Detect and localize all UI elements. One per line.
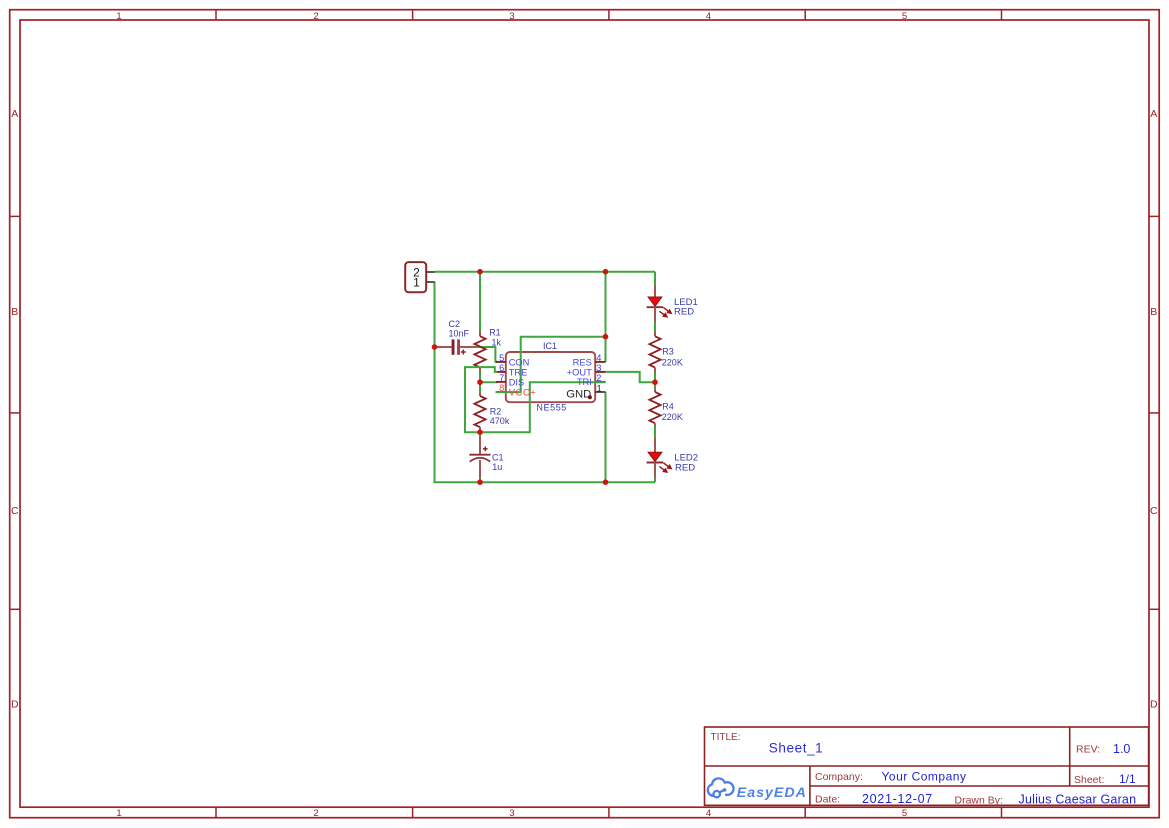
LED1 <box>647 286 672 322</box>
wire R1 branch top <box>479 272 481 334</box>
frame row ticks right <box>1149 216 1159 609</box>
svg-text:1/1: 1/1 <box>1119 772 1136 786</box>
IC1 pin1 GND stub <box>595 391 606 393</box>
wire left rail (connector pin1 down) <box>434 282 436 482</box>
wire GND pin1 vertical <box>605 392 607 482</box>
IC1 pin1 dot <box>588 395 592 399</box>
svg-text:4: 4 <box>706 808 711 819</box>
svg-text:3: 3 <box>596 363 601 373</box>
svg-text:Drawn By:: Drawn By: <box>955 795 1003 807</box>
svg-text:220K: 220K <box>662 412 683 422</box>
svg-text:10nF: 10nF <box>449 328 470 338</box>
svg-text:R4: R4 <box>662 401 674 411</box>
wire bottom rail GND <box>434 481 656 483</box>
svg-text:A: A <box>1150 108 1157 120</box>
svg-text:2: 2 <box>596 373 601 383</box>
svg-text:B: B <box>11 306 18 318</box>
wire OUT net <box>606 372 656 382</box>
svg-text:Date:: Date: <box>815 794 840 806</box>
resistor R1 <box>474 332 485 373</box>
svg-text:+OUT: +OUT <box>567 367 592 377</box>
svg-text:1: 1 <box>413 276 420 290</box>
svg-text:REV:: REV: <box>1076 744 1100 756</box>
svg-text:Your Company: Your Company <box>882 770 967 784</box>
svg-text:A: A <box>11 108 18 120</box>
frame column ticks bottom <box>216 807 1002 818</box>
junction top rail pin4 <box>603 269 609 275</box>
wire LED2 to bottom rail <box>654 477 656 483</box>
svg-text:RES: RES <box>573 357 592 367</box>
svg-text:5: 5 <box>902 11 907 22</box>
svg-text:RED: RED <box>674 307 694 318</box>
svg-text:5: 5 <box>902 808 907 819</box>
svg-text:2021-12-07: 2021-12-07 <box>862 792 933 806</box>
svg-text:R3: R3 <box>662 347 674 357</box>
frame column numbers bottom <box>116 808 907 819</box>
junction C2 left rail <box>432 344 438 350</box>
junction VCC-RES <box>603 334 609 340</box>
svg-text:TRI: TRI <box>577 377 592 387</box>
svg-text:Company:: Company: <box>815 771 863 783</box>
svg-text:R1: R1 <box>489 327 501 337</box>
svg-text:B: B <box>1150 306 1157 318</box>
svg-text:Sheet_1: Sheet_1 <box>769 740 824 755</box>
wire TRE-TRI net <box>465 367 605 432</box>
svg-text:1: 1 <box>116 11 121 22</box>
wire C1 bottom to rail <box>479 477 481 482</box>
wire R3 to OUT junction <box>654 372 656 390</box>
EasyEDA logo cloud <box>708 778 734 797</box>
svg-text:6: 6 <box>499 363 504 373</box>
junction C1 bottom rail <box>477 479 483 485</box>
IC1 pin stubs left <box>496 362 506 392</box>
junction R1-R2-DIS <box>477 379 483 385</box>
LED2 <box>647 438 672 477</box>
svg-text:CON: CON <box>509 357 530 367</box>
svg-text:GND: GND <box>566 389 591 401</box>
svg-text:D: D <box>1150 699 1158 711</box>
svg-text:IC1: IC1 <box>543 341 557 351</box>
svg-text:C: C <box>1150 505 1158 517</box>
wire top rail V+ <box>435 271 656 273</box>
frame row ticks left <box>10 216 20 609</box>
wire VCC net <box>496 337 606 392</box>
svg-text:1: 1 <box>116 808 121 819</box>
svg-text:C: C <box>11 505 19 517</box>
EasyEDA logo dot <box>723 788 727 792</box>
svg-text:1k: 1k <box>492 338 502 348</box>
svg-text:NE555: NE555 <box>536 402 567 412</box>
svg-text:4: 4 <box>706 11 711 22</box>
svg-text:3: 3 <box>509 11 514 22</box>
frame row letters right <box>1150 108 1158 711</box>
svg-text:R2: R2 <box>490 406 502 416</box>
svg-text:2: 2 <box>313 808 318 819</box>
wire LED1 to R3 <box>654 321 656 334</box>
frame column ticks top <box>216 10 1002 20</box>
IC1 pin numbers <box>499 353 504 393</box>
svg-text:VCC+: VCC+ <box>509 388 537 399</box>
svg-text:2: 2 <box>313 11 318 22</box>
svg-text:Julius Caesar Garan: Julius Caesar Garan <box>1019 793 1137 807</box>
svg-text:EasyEDA: EasyEDA <box>737 785 807 801</box>
junction top rail R1 <box>477 269 483 275</box>
wire R4 to LED2 <box>654 424 656 439</box>
frame row letters left <box>11 108 19 711</box>
frame column numbers top <box>116 11 907 22</box>
resistor R4 <box>649 389 660 425</box>
capacitor C1 polarized <box>469 437 490 478</box>
svg-text:Sheet:: Sheet: <box>1074 774 1104 786</box>
svg-text:D: D <box>11 699 19 711</box>
wire R1 bottom to DIS junction <box>479 371 481 393</box>
svg-text:3: 3 <box>509 808 514 819</box>
svg-text:TITLE:: TITLE: <box>711 732 741 743</box>
wire R2 bottom to C1 junction <box>479 427 481 438</box>
svg-text:1u: 1u <box>492 462 502 472</box>
svg-text:5: 5 <box>499 353 504 363</box>
svg-text:470k: 470k <box>490 416 510 426</box>
junction OUT-R3-R4 <box>652 379 658 385</box>
wire right chain segment top <box>654 272 656 287</box>
svg-text:DIS: DIS <box>509 377 525 387</box>
svg-text:RED: RED <box>675 463 695 474</box>
svg-text:1: 1 <box>597 383 602 393</box>
resistor R3 <box>649 332 660 373</box>
svg-text:TRE: TRE <box>509 367 528 377</box>
wire C2 to pin5 CON <box>476 347 498 362</box>
op IC1 NE555 box <box>506 352 595 402</box>
wire DIS pin7 to junction <box>480 381 498 383</box>
wire RES pin4 vertical <box>605 272 607 362</box>
IC1 pin names <box>509 357 537 398</box>
svg-text:4: 4 <box>596 353 601 363</box>
IC1 pin stubs right <box>595 362 606 382</box>
capacitor C2 <box>436 339 477 354</box>
resistor R2 <box>474 392 485 430</box>
svg-text:7: 7 <box>499 373 504 383</box>
svg-text:220K: 220K <box>662 357 683 367</box>
svg-text:1.0: 1.0 <box>1113 742 1130 756</box>
junction R2-C1-TRE <box>477 429 483 435</box>
svg-text:8: 8 <box>499 383 504 393</box>
junction GND bottom rail <box>603 479 609 485</box>
connector P1 <box>405 262 435 292</box>
title block outline <box>705 727 1149 805</box>
